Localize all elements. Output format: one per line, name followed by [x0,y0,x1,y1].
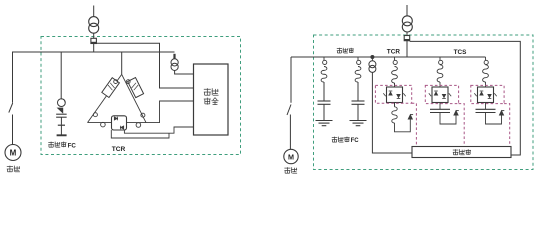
label 负载 (left) [7,166,20,172]
label TCS (right top) [454,49,468,56]
thyristor valve V1 (delta TCR pair) [112,116,127,130]
delta left edge wire [88,74,122,122]
wire: TCS gate return (module 2) [440,113,456,125]
controller box 控制器 [412,147,511,158]
reactor L1 (delta left arm) [102,78,120,98]
TCS branch 1 hook [439,57,443,65]
wire: load branch drop [12,52,14,103]
TCS capacitor C2 (module 2) [430,109,450,112]
TCS reactor L7 (module 3) [483,65,489,87]
wire: voltage measurement to controller [410,41,521,155]
svg-text:FC: FC [68,142,77,149]
svg-text:M: M [288,152,294,161]
capacitor C-FC (left) [56,114,67,117]
wire: TCR branch drop to delta apex [121,52,123,74]
thyristor valve V3 (TCS module 2) [429,87,451,103]
wire: filter reactor to capacitor 2 [357,82,359,101]
TCR branch hook [393,57,397,65]
FC branch blade contact [58,108,63,113]
filter capacitor C-f1 [318,101,331,104]
svg-text:TCR: TCR [112,146,126,153]
wire: voltage signal tap to control system [96,43,193,88]
bus tick before CT (left) [173,54,175,59]
wire: filter capacitor to ground 2 [357,104,359,120]
wire: switch to motor [12,115,14,145]
SVC system boundary (right green dashed box) [314,35,534,170]
wire: transformer T2 to PT node [406,32,408,35]
wire: filter reactor to capacitor 1 [323,82,325,101]
FC branch hook [58,99,66,107]
wire: PT node down to bus [406,41,408,57]
reactor L-FC (left I-bar symbol) [57,125,67,135]
hook on delta left arm lower [93,113,97,117]
wire: thyristor gate leads (outer) [111,130,169,138]
current transformer CT1 (left) [171,59,178,71]
hook at delta apex right [126,80,130,84]
PT measuring node (right small square) [404,36,410,41]
firing pulse arrow (module 1) [408,115,413,120]
wire: thyristor gate leads (inner) [124,127,193,133]
transformer T2 (right) [402,16,412,32]
PT measuring node (left small square) [91,38,97,43]
current transformer CT2 (right) [369,57,376,72]
wire: TCR gate return [395,119,411,132]
hook on delta right arm lower [141,113,145,117]
label TCR (left) [112,146,126,153]
wire: filter capacitor to ground 1 [323,104,325,120]
wire: HV feeder into transformer T1 [93,6,95,17]
filter branch 1 hook [323,57,327,65]
label 负载 (right) [284,167,297,173]
valve V4 module outline (magenta dashed) [471,85,504,103]
label 滤波器FC (left) [48,142,76,150]
SVC system boundary (left green dashed box) [41,37,241,155]
thyristor valve V4 (TCS module 3) [474,87,496,103]
bus bar (right) [291,56,486,58]
label TCR (right top) [387,48,401,55]
wire: valve V3 to capacitor [439,103,441,110]
wire: PT node down to bus [93,44,95,53]
TCR lower reactor L4 [392,103,397,124]
hook on delta bottom edge right [136,123,141,128]
svg-text:TCS: TCS [454,49,468,56]
motor M (left load) [5,145,21,161]
control system box 控制系统 [194,64,229,135]
TCR upper reactor L3 [392,67,398,83]
svg-text:M: M [10,149,17,158]
gate lead dashed run (module 3) [504,104,510,147]
filter capacitor C-f2 [352,101,365,104]
wire: reactor L3 to valve V2 [394,83,396,87]
bus bar (left) [12,51,175,53]
disconnect switch S2 (right load) [287,105,291,116]
thyristor valve V2 (TCR) [383,87,405,103]
ground (filter branch 1) [316,121,333,126]
wire: transformer T1 to PT node [93,33,95,38]
ground (filter branch 2) [350,121,367,126]
TCS capacitor C3 (module 3) [476,109,496,112]
disconnect switch S1 (load branch) [9,103,13,113]
svg-text:TCR: TCR [387,48,401,55]
wire: HV feeder into transformer T2 [406,5,408,16]
wire: CT1 to control system [175,71,194,75]
delta right edge wire [122,74,146,122]
svg-text:FC: FC [351,138,360,144]
transformer T1 (left) [89,17,99,34]
hook at delta apex left [114,80,118,84]
valve V2 module outline (magenta dashed) [375,85,411,103]
hook on delta bottom edge left [101,122,106,127]
junction dot: CT tap on bus [371,55,374,58]
motor M (right load) [284,149,298,163]
delta bottom edge wire [88,101,194,123]
wire: valve V4 to capacitor [485,103,487,110]
firing pulse arrow (module 3) [499,111,504,116]
TCS branch 2 hook [484,57,488,65]
valve V3 module outline (magenta dashed) [425,85,458,103]
TCS reactor L6 (module 2) [437,65,443,87]
filter branch 2 hook [357,57,361,65]
reactor L2 (delta right arm) [128,78,144,98]
firing pulse arrow (module 2) [454,111,459,116]
gate lead dashed run (module 2) [459,104,465,147]
wire: TCS gate return (module 3) [486,113,502,125]
gate lead dashed run (module 1) [412,103,417,146]
label 滤波器 (right top) [337,48,354,53]
wire: capacitor to reactor [60,117,62,125]
label 滤波器FC (right) [332,137,359,145]
wire: switch to motor (right) [289,115,291,150]
filter reactor L-f1 [321,67,327,83]
wire: CT2 to controller [372,72,412,153]
filter reactor L-f2 [355,67,361,83]
wire: load branch drop (right) [290,57,292,103]
wire: FC filter branch drop [60,52,62,99]
